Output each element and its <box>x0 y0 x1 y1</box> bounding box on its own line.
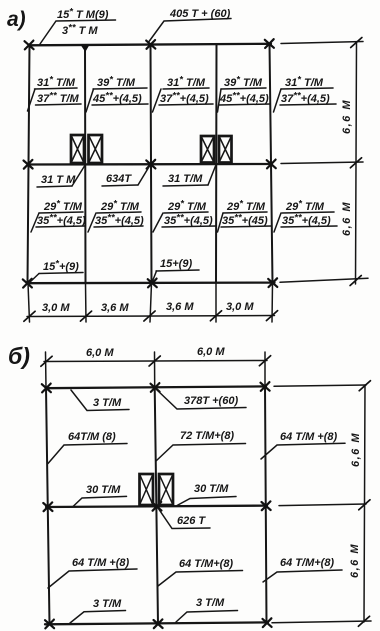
opening box A3 (fig a) <box>201 136 214 163</box>
load label a-lower-1 leader <box>31 213 39 232</box>
load label a-lower-2 underline2 <box>94 226 143 227</box>
moment label 15+(9) underline <box>156 270 199 271</box>
load label a-upper-3 underline2 <box>159 104 213 105</box>
load label b 64Т/М+(8) upper-right leader <box>261 443 345 459</box>
load label a-upper-2 underline1 <box>93 88 147 89</box>
node X top-right (fig a) <box>265 39 274 48</box>
svg-text:378Т +(60): 378Т +(60) <box>184 395 238 407</box>
node X top-right (fig b) <box>261 382 270 391</box>
load label a-lower-5 underline2 <box>281 226 337 227</box>
load label b 626т leader <box>158 508 210 529</box>
right extension middle (fig a) <box>281 162 363 164</box>
svg-text:29* Т/М: 29* Т/М <box>167 199 207 214</box>
svg-text:35**+(4,5): 35**+(4,5) <box>95 213 144 228</box>
mid label 31 Т М leader <box>72 166 85 186</box>
extension above axis2 (fig b) <box>154 352 156 388</box>
dim tick top (fig a right) <box>351 38 362 48</box>
load label a-upper-1 underline2 <box>36 104 82 105</box>
svg-text:3 Т/М: 3 Т/М <box>196 597 225 609</box>
extension below axis1 (fig a) <box>28 283 30 322</box>
svg-text:б): б) <box>8 343 30 369</box>
extension below axis4 (fig a) <box>215 283 217 322</box>
right extension top (fig a) <box>281 42 363 44</box>
annotation 15Т М(9) leader (fig a) <box>40 20 116 44</box>
right extension bottom (fig b) <box>272 621 371 623</box>
load label a-upper-2 underline2 <box>92 104 148 105</box>
dim tick 3 (fig b top) <box>259 356 270 366</box>
moment label 15+(9) leader <box>153 271 157 281</box>
moment label 15*+(9) underline <box>39 273 83 274</box>
wall axis line vertical 4 (fig a) <box>215 45 218 284</box>
dim tick bottom (fig a right) <box>350 276 361 286</box>
node X top-left (fig a) <box>25 41 34 50</box>
svg-text:3 Т/М: 3 Т/М <box>93 598 122 610</box>
opening box A4 (fig a) <box>219 136 232 163</box>
svg-text:6,0 М: 6,0 М <box>86 347 114 359</box>
node X mid-center (fig a) <box>146 160 155 169</box>
svg-text:31 Т/М: 31 Т/М <box>168 173 203 185</box>
load label a-lower-3 leader <box>153 213 163 232</box>
svg-text:64 Т/М +(8): 64 Т/М +(8) <box>72 557 129 569</box>
load label a-upper-4 underline2 <box>219 104 270 105</box>
load label a-upper-1 underline1 <box>35 88 78 89</box>
load label a-lower-5 leader <box>274 213 281 232</box>
svg-text:64Т/М (8): 64Т/М (8) <box>68 431 116 443</box>
svg-text:31* Т/М: 31* Т/М <box>37 75 76 90</box>
node X mid-center (fig b) <box>152 502 161 511</box>
dim tick bottom (fig b right) <box>358 616 369 626</box>
load label a-upper-4 underline1 <box>221 88 266 89</box>
floor line top (fig b) <box>46 386 266 388</box>
dim tick middle (fig a right) <box>350 158 361 168</box>
svg-text:64 Т/М+(8): 64 Т/М+(8) <box>179 558 233 570</box>
svg-text:634Т: 634Т <box>106 173 132 185</box>
vertical dimension line (fig b) <box>364 385 365 622</box>
node X mid-left (fig b) <box>43 502 52 511</box>
right extension bottom (fig a) <box>280 278 368 282</box>
extension below axis5 (fig a) <box>271 283 274 322</box>
load label b 64Т/М+(8) lower-right leader <box>263 570 342 582</box>
svg-text:3,6 М: 3,6 М <box>101 302 129 314</box>
mid label 31 Т М underline <box>37 186 72 187</box>
floor line bottom (fig a) <box>27 281 275 284</box>
vertical dimension line (fig a) <box>356 42 357 284</box>
moment label 15*+(9) leader <box>29 274 39 284</box>
load label b 72Т/М+(8) leader <box>156 444 246 462</box>
svg-text:6,0 М: 6,0 М <box>197 346 225 358</box>
load label a-lower-3 underline1 <box>164 212 208 213</box>
svg-text:405 Т + (60): 405 Т + (60) <box>169 8 231 20</box>
svg-text:15*+(9): 15*+(9) <box>43 259 79 274</box>
svg-text:6,6 М: 6,6 М <box>350 432 362 467</box>
svg-text:39* Т/М: 39* Т/М <box>224 75 263 90</box>
node X top-center (fig a) <box>146 40 155 49</box>
annotation 405т leader (fig a) <box>149 19 231 42</box>
node X top-center (fig b) <box>151 383 160 392</box>
extension below axis3 (fig a) <box>150 283 152 322</box>
load label b 378Т leader <box>157 390 246 409</box>
svg-text:45**+(4,5): 45**+(4,5) <box>92 91 142 106</box>
svg-text:64 Т/М +(8): 64 Т/М +(8) <box>280 431 337 443</box>
svg-text:3,0 М: 3,0 М <box>226 301 254 313</box>
svg-text:37**+(4,5): 37**+(4,5) <box>160 91 209 106</box>
load label a-upper-4 leader <box>218 89 222 112</box>
load label a-lower-2 leader <box>88 213 96 232</box>
node X bottom-left (fig a) <box>23 279 32 288</box>
svg-text:29* Т/М: 29* Т/М <box>43 199 83 214</box>
svg-text:35**+(4,5): 35**+(4,5) <box>164 213 213 228</box>
svg-text:64 Т/М+(8): 64 Т/М+(8) <box>280 557 334 569</box>
svg-text:15+(9): 15+(9) <box>160 258 192 270</box>
load label a-lower-3 underline2 <box>162 226 216 227</box>
svg-text:29* Т/М: 29* Т/М <box>285 199 325 214</box>
node X mid-left (fig a) <box>24 160 33 169</box>
load label a-lower-2 underline1 <box>97 212 141 213</box>
floor line top (fig a) <box>30 44 272 46</box>
load label a-upper-5 underline1 <box>281 88 333 89</box>
load label b 3Т/М bottom-right leader <box>176 611 238 623</box>
node blob axis2 top (fig a) <box>81 45 90 52</box>
svg-text:39* Т/М: 39* Т/М <box>97 75 136 90</box>
load label b 30Т/М left leader <box>73 496 127 506</box>
svg-text:29* Т/М: 29* Т/М <box>100 199 140 214</box>
svg-text:6,6 М: 6,6 М <box>341 99 353 134</box>
wall axis line vertical 1 (fig a) <box>28 45 30 283</box>
wall axis line vertical 2 (fig a) <box>84 45 87 283</box>
dim tick 3 (fig a bottom) <box>144 311 155 321</box>
load label a-lower-4 leader <box>218 213 224 232</box>
right extension middle (fig b) <box>279 504 366 506</box>
floor line middle (fig a) <box>28 163 272 166</box>
svg-text:37** Т/М: 37** Т/М <box>37 91 79 106</box>
svg-text:30 Т/М: 30 Т/М <box>194 483 229 495</box>
opening box A2 (fig a) <box>89 135 103 163</box>
node X bottom-right (fig a) <box>268 278 277 287</box>
load label a-lower-1 underline1 <box>39 212 83 213</box>
load label a-lower-4 underline2 <box>221 226 271 227</box>
load label a-lower-4 underline1 <box>223 212 267 213</box>
svg-text:3** Т М: 3** Т М <box>62 23 98 38</box>
dim tick 2 (fig a bottom) <box>80 311 91 321</box>
load label a-upper-1 leader <box>28 89 36 111</box>
dimension line bottom (fig a) <box>27 316 275 317</box>
svg-text:30 Т/М: 30 Т/М <box>86 484 121 496</box>
floor line bottom (fig b) <box>45 622 268 624</box>
mid label 634Т underline <box>102 185 138 186</box>
floor line middle (fig b) <box>46 506 267 507</box>
opening box B1 (fig b) <box>140 474 154 505</box>
load label a-upper-5 leader <box>274 89 282 112</box>
load label a-upper-5 underline2 <box>280 104 336 105</box>
svg-text:31* Т/М: 31* Т/М <box>167 75 206 90</box>
load label b 64Т/М+(8) lower-mid leader <box>158 571 243 587</box>
dim tick 4 (fig a bottom) <box>210 311 221 321</box>
svg-text:35**+(4,5): 35**+(4,5) <box>37 213 86 228</box>
load label a-lower-5 underline1 <box>282 212 334 213</box>
extension above axis1 (fig b) <box>45 352 48 388</box>
mid label 634Т leader <box>138 166 150 185</box>
svg-text:45**+(4,5): 45**+(4,5) <box>219 91 269 106</box>
extension below axis2 (fig a) <box>85 283 88 322</box>
load label b 3Т/М top-left leader <box>71 390 129 411</box>
load label b 3Т/М bottom-left leader <box>70 611 126 624</box>
opening box B2 (fig b) <box>159 474 173 505</box>
node X mid-right (fig b) <box>262 501 271 510</box>
svg-text:3,6 М: 3,6 М <box>166 301 194 313</box>
svg-text:31* Т/М: 31* Т/М <box>285 75 324 90</box>
right extension top (fig b) <box>274 385 366 386</box>
dim tick middle (fig b right) <box>359 500 370 510</box>
svg-text:35**+(45): 35**+(45) <box>222 213 268 228</box>
svg-text:29* Т/М: 29* Т/М <box>226 199 266 214</box>
load label b 64Т/М+(8) lower-left leader <box>48 569 137 588</box>
dim tick 1 (fig a bottom) <box>24 311 35 321</box>
load label b 30Т/М right leader <box>177 497 236 506</box>
load label a-upper-3 underline1 <box>163 88 209 89</box>
wall axis line vertical 3 (fig b) <box>265 387 267 624</box>
extension above axis3 (fig b) <box>264 352 266 387</box>
dim tick top (fig b right) <box>359 381 370 391</box>
node X top-left (fig b) <box>42 384 51 393</box>
dim tick 1 (fig b top) <box>41 356 52 366</box>
wall axis line vertical 5 (fig a) <box>270 44 273 284</box>
svg-text:3 Т/М: 3 Т/М <box>93 397 122 409</box>
wall axis line vertical 1 (fig b) <box>46 388 50 624</box>
svg-text:6,6 М: 6,6 М <box>349 543 361 578</box>
load label a-lower-1 underline2 <box>36 226 85 227</box>
dim tick 5 (fig a bottom) <box>266 311 277 321</box>
node X bottom-left (fig b) <box>45 620 54 629</box>
node X bottom-right (fig b) <box>263 618 272 627</box>
svg-text:31 Т М: 31 Т М <box>41 174 76 186</box>
dimension line top (fig b) <box>44 361 267 362</box>
mid label 31 Т/М underline <box>163 185 208 186</box>
load label b 64Т/М(8) upper-left leader <box>48 444 127 464</box>
node X bottom-center (fig a) <box>148 279 157 288</box>
svg-text:6,6 М: 6,6 М <box>341 201 353 236</box>
mid label 31 Т/М leader <box>208 166 216 185</box>
svg-text:3,0 М: 3,0 М <box>42 302 70 314</box>
svg-text:72 Т/М+(8): 72 Т/М+(8) <box>180 430 234 442</box>
wall axis line vertical 2 (fig b) <box>155 388 158 625</box>
opening box A1 (fig a) <box>71 135 84 163</box>
svg-text:626 Т: 626 Т <box>177 515 206 527</box>
load label a-upper-3 leader <box>153 89 162 112</box>
dim tick 2 (fig b top) <box>149 356 160 366</box>
svg-text:а): а) <box>7 8 26 31</box>
svg-text:15* Т М(9): 15* Т М(9) <box>57 7 109 22</box>
node X bottom-center (fig b) <box>154 619 163 628</box>
svg-text:35**+(4,5): 35**+(4,5) <box>282 213 331 228</box>
node X mid-right (fig a) <box>267 160 276 169</box>
svg-text:37**+(4,5): 37**+(4,5) <box>281 91 330 106</box>
wall axis line vertical 3 (fig a) <box>151 45 152 284</box>
load label a-upper-2 leader <box>86 89 94 112</box>
